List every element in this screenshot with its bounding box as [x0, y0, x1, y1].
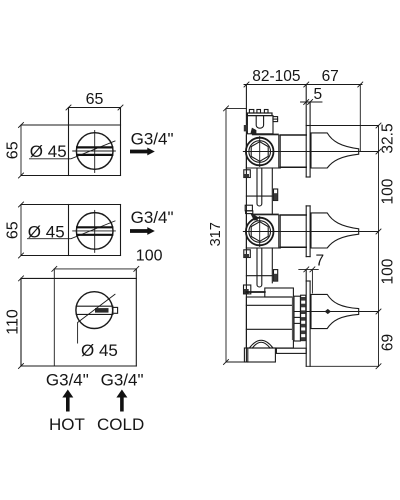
- mounting lug cartridge 2: [245, 205, 253, 213]
- pipe loop between cartridge 2 and diverter: [257, 248, 262, 287]
- step line mid 2: [246, 275, 272, 277]
- leader line Ø45 fig1: [30, 141, 116, 159]
- handle 3 diamond marker: [325, 309, 331, 314]
- cartridge 2 vertical centerline: [259, 217, 261, 247]
- internal body edge line fig3: [53, 269, 55, 366]
- lug below cartridge 1: [244, 170, 251, 178]
- dome pipe elbow: [249, 340, 273, 348]
- sleeve cartridge 1: [280, 135, 306, 167]
- stub screw between cartridges: [274, 189, 278, 201]
- plate fig3: [21, 269, 136, 366]
- cartridge 1 hex nut: [251, 142, 268, 162]
- lever bar fig3: [76, 306, 113, 314]
- handle circle fig2: [76, 213, 113, 250]
- svg-text:32.5: 32.5: [380, 123, 397, 153]
- svg-text:65: 65: [4, 221, 21, 239]
- thick bar cartridge 1: [252, 134, 279, 136]
- dimension 110 ticks fig3: [19, 276, 24, 369]
- lever end cap fig3: [113, 307, 118, 313]
- svg-text:317: 317: [208, 222, 224, 246]
- cartridge 1 outer circle: [246, 138, 274, 166]
- cartridge 1 inner circle: [249, 141, 271, 163]
- dimension 65 height fig2: [19, 202, 24, 258]
- dimension 317 left: [224, 106, 247, 365]
- svg-text:5: 5: [314, 86, 323, 103]
- left dark step top: [244, 125, 248, 131]
- dimension 7: [299, 267, 319, 293]
- cartridge 2 outer circle: [246, 218, 274, 246]
- lever bar fig1: [77, 147, 112, 155]
- tube line between cartridge 1 and 2: [271, 168, 273, 214]
- svg-text:Ø 45: Ø 45: [30, 142, 67, 161]
- svg-text:7: 7: [316, 253, 325, 270]
- svg-text:G3/4": G3/4": [131, 129, 174, 148]
- wall plate caps: [306, 126, 310, 282]
- svg-text:G3/4": G3/4": [46, 370, 89, 389]
- handle 3 outline: [311, 294, 359, 328]
- handle 1 outline: [311, 133, 359, 168]
- lever bar fig2: [77, 227, 112, 235]
- bottom right outlet bar: [276, 348, 306, 353]
- handle 2 outline: [311, 213, 359, 248]
- top bracket flange: [247, 113, 272, 116]
- dimension 65 width fig1: [66, 105, 123, 110]
- pipe loop between cartridge 1 and 2: [257, 168, 262, 206]
- centerline cartridge 2: [243, 231, 378, 233]
- svg-text:69: 69: [380, 334, 397, 351]
- diverter block: [246, 297, 293, 348]
- handle circle fig3: [76, 292, 113, 329]
- dimension chain right: [306, 123, 381, 369]
- cartridge 1 vertical centerline: [259, 137, 261, 167]
- dark wedge cartridge 1: [250, 128, 256, 134]
- handle circle fig1: [76, 133, 113, 170]
- hot inlet arrow: [62, 390, 73, 412]
- flow arrow fig1: [130, 148, 155, 156]
- cold inlet arrow: [116, 390, 127, 412]
- tube line between cartridge 2 and diverter: [271, 248, 273, 283]
- lug below cartridge 2: [244, 250, 251, 258]
- lever grip dark fill fig3: [95, 308, 109, 313]
- dark wedge cartridge 2: [250, 213, 258, 220]
- cartridge 2 hex nut: [251, 222, 268, 242]
- svg-text:82-105: 82-105: [252, 68, 300, 85]
- top right tab: [273, 117, 278, 122]
- diverter strip A: [294, 296, 300, 341]
- diverter flange: [246, 288, 293, 297]
- svg-text:65: 65: [86, 91, 104, 108]
- svg-text:110: 110: [4, 309, 21, 335]
- centerline cartridge 1: [243, 151, 378, 153]
- svg-text:100: 100: [380, 258, 397, 284]
- diverter block right dark edge: [292, 297, 294, 341]
- svg-text:Ø 45: Ø 45: [81, 341, 118, 360]
- cartridge 2 inner circle: [249, 221, 271, 243]
- cartridge 1 block: [246, 135, 280, 168]
- svg-text:HOT: HOT: [49, 415, 85, 434]
- centerline diverter: [294, 311, 379, 313]
- stub screw lower: [274, 270, 278, 282]
- wall plate front face: [309, 102, 311, 366]
- cartridge 2 block: [246, 215, 280, 248]
- flow arrow fig2: [130, 227, 155, 235]
- svg-text:65: 65: [4, 141, 21, 159]
- foot block: [244, 348, 275, 362]
- dimension 100 fig3: [52, 266, 139, 271]
- dimension 82-105 / 67 top: [244, 82, 363, 151]
- leader line Ø45 fig2: [28, 221, 116, 239]
- svg-text:G3/4": G3/4": [131, 208, 174, 227]
- sleeve cartridge 2: [280, 215, 306, 247]
- centerlines fig2: [73, 210, 116, 252]
- svg-text:COLD: COLD: [97, 415, 144, 434]
- leader line Ø45 fig3: [78, 294, 115, 343]
- step line mid 1: [246, 195, 272, 197]
- thick bar cartridge 2: [252, 214, 279, 216]
- centerlines fig1: [73, 131, 116, 173]
- dimension 65 height fig1: [19, 123, 24, 179]
- plate fig1: [21, 108, 121, 176]
- svg-text:67: 67: [322, 68, 339, 85]
- top block: [247, 116, 273, 134]
- mounting lug diverter: [244, 285, 251, 294]
- wall plate back face: [305, 85, 307, 367]
- dimension 5 plate thickness: [301, 100, 323, 105]
- svg-text:G3/4": G3/4": [101, 370, 144, 389]
- body back edge: [245, 85, 247, 362]
- top bracket studs: [249, 110, 268, 114]
- diverter strip B threaded stack: [301, 295, 306, 340]
- svg-text:100: 100: [380, 178, 397, 204]
- svg-text:100: 100: [136, 248, 163, 265]
- plate fig2: [21, 205, 121, 256]
- svg-text:Ø 45: Ø 45: [28, 222, 65, 241]
